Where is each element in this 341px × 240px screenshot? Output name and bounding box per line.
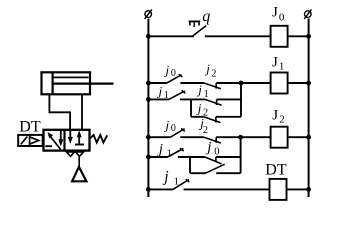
- rung 3 branch b wire: [148, 156, 167, 158]
- wire j1 to coil DT: [184, 188, 270, 190]
- valve position divider: [63, 130, 65, 151]
- exhaust check triangle right: [76, 152, 84, 157]
- contact j2 NC (parallel): [204, 117, 221, 123]
- left bus rail: [147, 19, 149, 197]
- node rung2 left: [146, 81, 151, 86]
- node rung2 mid: [239, 81, 244, 86]
- exhaust triangle: [72, 167, 86, 182]
- rung 1 wire left: [148, 35, 194, 37]
- solenoid diagonal: [21, 137, 28, 145]
- solenoid actuator box: [18, 135, 43, 146]
- node rung1 left: [146, 34, 151, 39]
- node rung2b left: [146, 97, 151, 102]
- wire to coil J2: [241, 136, 271, 138]
- valve body: [44, 130, 90, 151]
- left cell diagonal flow arrow: [50, 136, 61, 150]
- svg-text:DT: DT: [19, 119, 41, 136]
- svg-text:0: 0: [214, 147, 219, 158]
- contact j2 NC: [204, 83, 221, 89]
- svg-text:J: J: [272, 54, 278, 70]
- node rung2 right: [306, 81, 311, 86]
- left cell down flow arrow: [60, 131, 62, 140]
- piston: [51, 72, 53, 94]
- svg-text:1: 1: [167, 148, 172, 159]
- contact j0 NO: [167, 75, 182, 83]
- rung 3 branch a wire: [148, 136, 170, 138]
- svg-text:2: 2: [279, 114, 285, 126]
- rung 2 branch b wire: [148, 98, 168, 100]
- pushbutton cap: [190, 21, 199, 25]
- node rung4 left: [146, 187, 151, 192]
- node rung3 mid: [238, 135, 243, 140]
- svg-text:0: 0: [171, 123, 176, 134]
- rung3 sub branch wire: [190, 172, 206, 174]
- wire J1 to right rail: [288, 82, 309, 84]
- right bus rail: [308, 19, 310, 197]
- node rung3 left: [146, 135, 151, 140]
- left phase symbol: [145, 11, 152, 18]
- wire to coil J1: [241, 82, 271, 84]
- wire J0 to right rail: [288, 35, 309, 37]
- svg-text:J: J: [272, 5, 278, 21]
- right phase symbol: [305, 11, 312, 18]
- svg-text:0: 0: [171, 68, 176, 79]
- pipe rod-end port: [81, 94, 83, 130]
- contact j0 NC (rung3): [205, 157, 222, 164]
- exhaust check triangle left: [67, 152, 75, 157]
- exhaust line: [78, 156, 80, 167]
- rung3 right vertical: [240, 137, 242, 173]
- wire q to coil J0: [205, 35, 271, 37]
- svg-text:J: J: [272, 108, 278, 124]
- cylinder body: [42, 72, 91, 94]
- rung3 sub branch left vertical: [189, 157, 191, 173]
- right cell down flow arrow: [69, 131, 71, 138]
- contact j1 NO (rung3): [168, 149, 184, 158]
- coil J1: [271, 73, 288, 94]
- rung2 right vertical: [240, 83, 242, 117]
- node rung4 right: [306, 187, 311, 192]
- svg-text:1: 1: [174, 176, 179, 187]
- svg-text:1: 1: [279, 61, 285, 73]
- wire DT to right rail: [287, 188, 309, 190]
- wire J2 to right rail: [288, 136, 309, 138]
- coil J2: [271, 127, 288, 148]
- svg-text:1: 1: [204, 89, 209, 100]
- coil J0: [271, 26, 288, 47]
- svg-text:2: 2: [211, 69, 216, 80]
- contact j0 NO (rung3): [170, 129, 184, 138]
- sub branch wire: [191, 116, 204, 118]
- svg-text:1: 1: [164, 90, 169, 101]
- pushbutton q contact: [192, 26, 206, 37]
- left cell blocked port bar: [45, 145, 52, 147]
- rung3 sub contact arm: [206, 164, 225, 173]
- pipe cap-end port: [49, 94, 70, 130]
- piston rod top line: [53, 76, 89, 78]
- rung 2 branch a wire: [148, 82, 167, 84]
- coil DT: [270, 179, 287, 200]
- spring return: [90, 135, 108, 143]
- contact j1 NC: [205, 99, 222, 105]
- rung 4 wire left: [148, 188, 173, 190]
- piston rod: [53, 82, 114, 84]
- solenoid triangle: [30, 137, 39, 144]
- sub branch left vertical: [190, 99, 192, 116]
- contact j2 NC (rung3): [204, 137, 221, 143]
- right cell blocked port bar: [75, 144, 84, 146]
- contact j1 NO: [169, 91, 185, 100]
- svg-text:2: 2: [203, 125, 208, 136]
- contact j1 NO (rung4): [173, 180, 189, 190]
- svg-text:0: 0: [279, 11, 285, 23]
- svg-text:q: q: [202, 8, 210, 25]
- svg-text:DT: DT: [265, 162, 287, 179]
- right cell up flow arrow: [78, 137, 80, 145]
- node rung1 right: [306, 34, 311, 39]
- node rung3b left: [146, 155, 151, 160]
- node rung3 right: [306, 135, 311, 140]
